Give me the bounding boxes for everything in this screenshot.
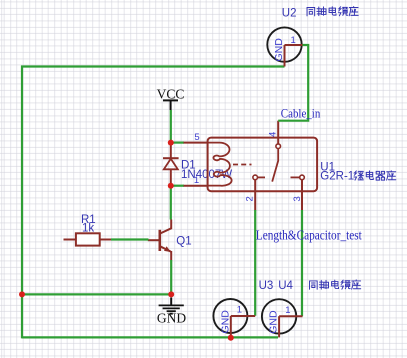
svg-text:1: 1 xyxy=(291,35,296,46)
connector U2 (coax socket, top) xyxy=(267,27,303,66)
U2 GND pin lead xyxy=(284,45,286,67)
wire emitter row xyxy=(22,293,171,295)
svg-text:Cable_in: Cable_in xyxy=(281,107,321,121)
label 同轴电缆座 (bottom) xyxy=(310,280,361,289)
node A junction dot (VCC / D1 cathode / relay pin 5) xyxy=(168,140,174,146)
U3 pin 1 lead xyxy=(231,315,255,317)
switch armature xyxy=(272,149,278,182)
relay pin 5 lead xyxy=(184,142,208,144)
node C junction dot (emitter / GND rail) xyxy=(168,291,174,297)
svg-text:3: 3 xyxy=(292,196,303,201)
relay pin 4 lead xyxy=(277,121,279,144)
svg-text:U2: U2 xyxy=(282,7,297,19)
NC contact circle (pin 2) xyxy=(253,175,258,180)
relay U1 G2R-1 xyxy=(184,121,318,211)
wire relay pin 2 to U3 pin 1 xyxy=(254,210,256,316)
node D junction dot (left rail) xyxy=(19,291,25,297)
wire VCC to node A xyxy=(170,110,172,143)
connector U3 (coax socket, bottom left) xyxy=(213,299,255,338)
svg-text:GND: GND xyxy=(219,310,231,334)
wire relay pin 3 to U4 pin 1 xyxy=(301,210,303,316)
svg-text:U4: U4 xyxy=(278,280,293,292)
relay pin 2 lead xyxy=(254,180,256,211)
svg-text:Length&Capacitor_test: Length&Capacitor_test xyxy=(256,228,362,243)
node B junction dot (D1 anode / relay pin 1 / Q1 collector) xyxy=(168,183,174,189)
relay body outline xyxy=(208,138,318,192)
diode D1 1N4007W xyxy=(163,143,179,186)
wire node B to Q1 collector xyxy=(170,186,172,220)
relay pin 3 lead xyxy=(301,180,303,211)
svg-text:4: 4 xyxy=(267,132,278,137)
svg-text:GND: GND xyxy=(157,311,186,326)
U3 GND pin lead xyxy=(230,316,232,338)
svg-text:2: 2 xyxy=(244,196,255,201)
wire: net GND bottom horizontal run xyxy=(22,336,278,338)
svg-text:1: 1 xyxy=(237,304,242,315)
ground symbol GND xyxy=(157,298,186,326)
svg-text:1k: 1k xyxy=(82,223,94,235)
wire R1 to Q1 base xyxy=(111,238,149,240)
relay coil xyxy=(208,143,232,186)
wire U2 pin1 to relay pin 4 (net Cable_in) xyxy=(278,45,308,121)
svg-text:5: 5 xyxy=(194,132,199,143)
common contact circle (pin 4) xyxy=(276,144,281,149)
svg-text:1: 1 xyxy=(285,305,290,316)
U2 pin 1 lead xyxy=(285,44,304,46)
power symbol VCC xyxy=(157,87,185,110)
wire: net GND left vertical run xyxy=(21,66,23,339)
label 同轴电缆座 (top) xyxy=(307,7,358,16)
wire Q1 emitter down xyxy=(170,260,172,294)
connector U4 (coax socket, bottom right) xyxy=(262,299,303,337)
resistor R1 1k xyxy=(64,233,113,245)
svg-text:VCC: VCC xyxy=(157,87,185,102)
U4 GND pin lead xyxy=(278,316,280,337)
svg-text:G2R-1: G2R-1 xyxy=(320,171,354,183)
NO contact circle (pin 3) xyxy=(300,175,305,180)
svg-text:U3: U3 xyxy=(259,280,274,292)
coil-contact dashed link xyxy=(233,164,252,166)
svg-text:1: 1 xyxy=(194,175,199,186)
svg-text:GND: GND xyxy=(273,38,285,62)
U4 pin 1 lead xyxy=(279,315,302,317)
svg-text:GND: GND xyxy=(268,310,280,334)
wire: net GND top horizontal run xyxy=(21,65,285,67)
transistor Q1 xyxy=(148,220,171,261)
node E junction dot (U3 GND on bottom rail) xyxy=(228,335,234,341)
svg-text:Q1: Q1 xyxy=(176,236,191,248)
wire node B to relay pin 1 xyxy=(171,185,184,187)
wire node A to relay pin 5 xyxy=(171,142,184,144)
relay pin 1 lead xyxy=(184,185,208,187)
